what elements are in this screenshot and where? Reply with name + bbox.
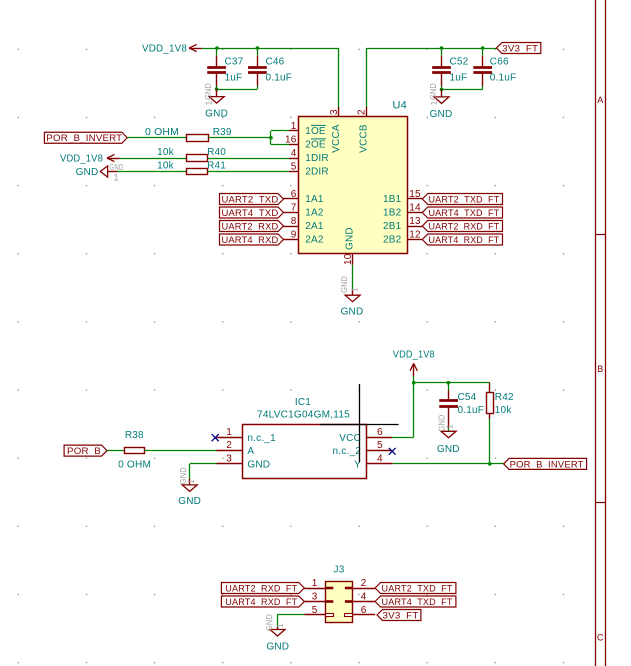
svg-text:4: 4 [361, 592, 367, 603]
svg-text:2: 2 [361, 578, 367, 589]
svg-text:2OE: 2OE [305, 139, 326, 150]
svg-text:1: 1 [276, 623, 285, 628]
svg-text:1uF: 1uF [450, 72, 468, 83]
svg-text:6: 6 [361, 605, 367, 616]
svg-text:1B1: 1B1 [383, 194, 402, 205]
svg-text:IC1: IC1 [295, 397, 311, 408]
svg-text:2A1: 2A1 [305, 221, 324, 232]
svg-text:0.1uF: 0.1uF [490, 72, 517, 83]
svg-text:2: 2 [356, 109, 367, 115]
svg-text:1: 1 [351, 287, 360, 292]
svg-text:1: 1 [445, 424, 454, 429]
svg-text:1B2: 1B2 [383, 207, 402, 218]
svg-text:B: B [597, 364, 603, 374]
svg-text:POR_B_INVERT: POR_B_INVERT [510, 459, 584, 470]
svg-text:UART2_TXD_FT: UART2_TXD_FT [428, 194, 499, 205]
svg-text:POR_B: POR_B [67, 446, 101, 457]
svg-text:R41: R41 [207, 161, 226, 172]
svg-text:UART4_RXD_FT: UART4_RXD_FT [225, 597, 297, 608]
svg-text:14: 14 [409, 202, 421, 213]
svg-text:3: 3 [329, 109, 340, 115]
svg-text:R40: R40 [207, 147, 226, 158]
svg-text:VDD_1V8: VDD_1V8 [142, 44, 187, 55]
svg-text:2: 2 [226, 440, 232, 451]
svg-text:1DIR: 1DIR [305, 153, 329, 164]
svg-text:A: A [597, 95, 603, 105]
svg-text:1: 1 [114, 172, 119, 182]
svg-text:GND: GND [205, 109, 228, 120]
svg-text:UART2_TXD_FT: UART2_TXD_FT [382, 583, 453, 594]
svg-text:2B1: 2B1 [383, 221, 402, 232]
svg-text:UART2_RXD_FT: UART2_RXD_FT [428, 221, 499, 232]
svg-text:C46: C46 [266, 56, 285, 67]
svg-text:GND: GND [341, 307, 364, 318]
svg-text:UART4_TXD: UART4_TXD [221, 208, 278, 219]
svg-text:3V3_FT: 3V3_FT [502, 43, 538, 54]
svg-text:1: 1 [205, 100, 214, 105]
svg-text:1A1: 1A1 [305, 194, 324, 205]
svg-text:U4: U4 [393, 99, 407, 111]
svg-text:UART2_RXD: UART2_RXD [221, 221, 278, 232]
svg-text:C54: C54 [458, 392, 477, 403]
svg-text:1uF: 1uF [225, 72, 243, 83]
svg-text:74LVC1G04GM,115: 74LVC1G04GM,115 [257, 409, 350, 420]
svg-text:1OE: 1OE [305, 126, 326, 137]
svg-text:GND: GND [76, 167, 99, 178]
svg-text:16: 16 [285, 134, 297, 145]
svg-text:0 OHM: 0 OHM [118, 459, 151, 470]
svg-text:GND: GND [345, 227, 356, 250]
svg-text:1: 1 [312, 578, 318, 589]
svg-text:9: 9 [291, 229, 297, 240]
svg-text:4: 4 [291, 148, 297, 159]
svg-text:VCCB: VCCB [359, 124, 370, 153]
svg-text:3: 3 [312, 592, 318, 603]
svg-text:UART4_RXD: UART4_RXD [221, 235, 278, 246]
svg-text:VDD_1V8: VDD_1V8 [60, 154, 103, 165]
svg-text:2DIR: 2DIR [305, 166, 329, 177]
svg-text:J3: J3 [334, 565, 345, 576]
svg-text:10k: 10k [157, 161, 175, 172]
svg-text:10k: 10k [495, 405, 513, 416]
svg-text:6: 6 [377, 427, 383, 438]
svg-text:R39: R39 [213, 127, 232, 138]
svg-text:GND: GND [429, 83, 438, 100]
svg-text:VCCA: VCCA [331, 124, 342, 153]
svg-text:GND: GND [430, 109, 453, 120]
svg-text:GND: GND [110, 163, 124, 172]
svg-text:1: 1 [226, 427, 232, 438]
svg-text:UART2_TXD: UART2_TXD [221, 194, 278, 205]
svg-text:1: 1 [187, 479, 196, 484]
svg-text:n.c._1: n.c._1 [247, 433, 276, 444]
svg-text:1A2: 1A2 [305, 207, 324, 218]
svg-text:0 OHM: 0 OHM [145, 127, 179, 138]
svg-text:10: 10 [343, 253, 354, 265]
svg-text:12: 12 [409, 229, 421, 240]
svg-text:GND: GND [247, 459, 270, 470]
svg-text:1: 1 [291, 121, 297, 132]
svg-text:3: 3 [226, 454, 232, 465]
svg-text:GND: GND [265, 614, 274, 631]
svg-text:8: 8 [291, 216, 297, 227]
svg-text:VDD_1V8: VDD_1V8 [393, 350, 435, 361]
svg-text:R42: R42 [495, 392, 514, 403]
svg-text:GND: GND [204, 83, 213, 100]
svg-text:3V3_FT: 3V3_FT [383, 610, 419, 621]
svg-text:UART4_RXD_FT: UART4_RXD_FT [428, 235, 499, 246]
svg-text:GND: GND [266, 641, 289, 652]
svg-text:UART4_TXD_FT: UART4_TXD_FT [428, 208, 499, 219]
svg-text:C: C [597, 633, 604, 643]
svg-text:10k: 10k [157, 147, 175, 158]
svg-text:2A2: 2A2 [305, 234, 324, 245]
svg-text:2B2: 2B2 [383, 234, 402, 245]
svg-text:GND: GND [437, 444, 460, 455]
svg-text:5: 5 [291, 161, 297, 172]
svg-text:5: 5 [312, 605, 318, 616]
svg-text:7: 7 [291, 202, 297, 213]
svg-text:1: 1 [429, 100, 438, 105]
svg-text:R38: R38 [125, 430, 144, 441]
svg-text:C66: C66 [490, 56, 509, 67]
svg-text:C52: C52 [450, 56, 469, 67]
svg-text:GND: GND [340, 276, 349, 293]
svg-text:GND: GND [178, 496, 201, 507]
svg-text:13: 13 [409, 216, 421, 227]
svg-text:POR_B_INVERT: POR_B_INVERT [46, 133, 122, 144]
svg-text:5: 5 [377, 440, 383, 451]
svg-text:0.1uF: 0.1uF [458, 405, 485, 416]
svg-text:UART4_TXD_FT: UART4_TXD_FT [382, 597, 453, 608]
svg-text:A: A [247, 446, 254, 457]
svg-text:UART2_RXD_FT: UART2_RXD_FT [225, 583, 297, 594]
svg-text:0.1uF: 0.1uF [266, 72, 293, 83]
svg-text:C37: C37 [225, 56, 244, 67]
svg-text:n.c._2: n.c._2 [333, 446, 362, 457]
svg-text:VCC: VCC [339, 433, 361, 444]
